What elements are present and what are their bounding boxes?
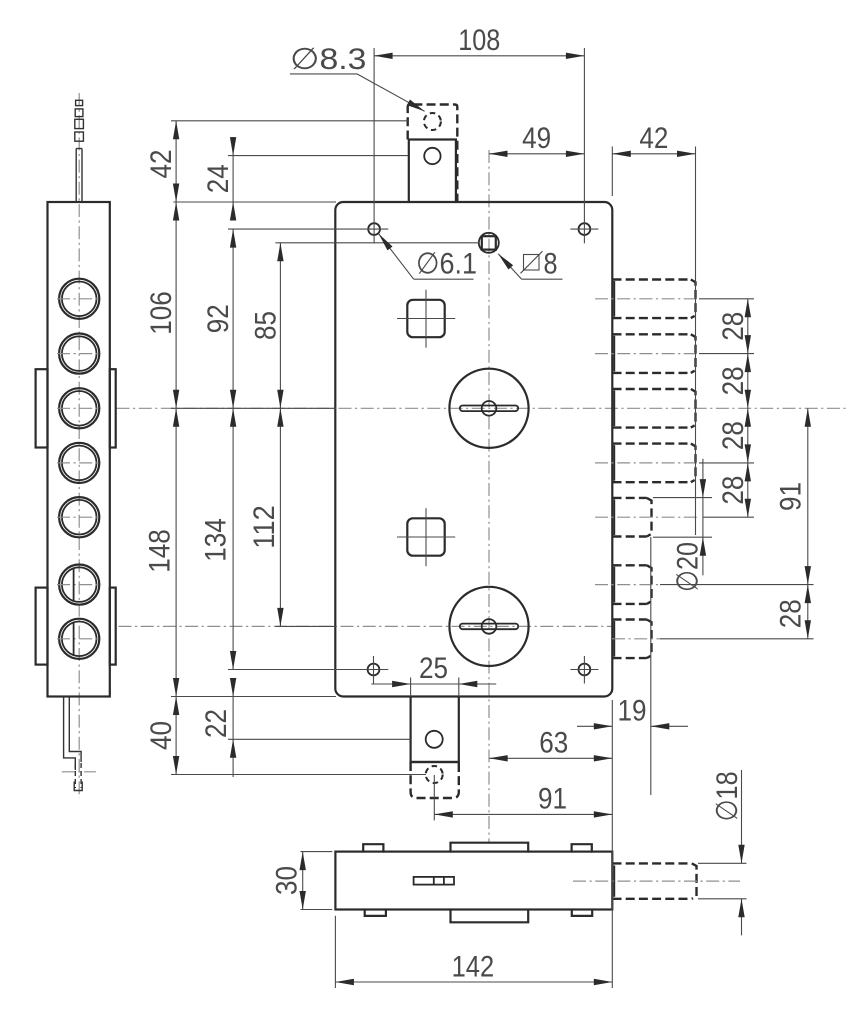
bottom view bottom right tab xyxy=(572,910,592,916)
side view bolt circle 3 xyxy=(57,388,102,428)
extension line bottom screw holes y=669.5 xyxy=(228,669,388,671)
extension line top screw holes y=229.1 xyxy=(228,228,388,230)
dimension 28 text 4 xyxy=(717,476,750,505)
extension line top left hole vertical xyxy=(373,48,375,243)
screw hole top left xyxy=(368,223,380,235)
side view cylinder circle 7 xyxy=(57,619,102,659)
bolt B5 (short, hidden) xyxy=(613,498,652,537)
leader diameter 8.3 top tab hole xyxy=(290,43,426,114)
bolt B7 (short, hidden) xyxy=(613,620,652,659)
extension line short bolt tips vertical xyxy=(650,537,652,795)
extension line bottom view left vertical xyxy=(334,916,336,988)
follower square hole upper xyxy=(397,290,455,348)
extension line body right edge vertical xyxy=(611,700,613,988)
extension line upper cylinder level xyxy=(171,407,336,409)
svg-text:134: 134 xyxy=(200,518,233,562)
dimension diameter 18 (bottom bolt) xyxy=(711,770,745,935)
dimension 28 right text xyxy=(774,599,807,628)
svg-text:∅8.3: ∅8.3 xyxy=(290,43,367,76)
extension line tab hole level y=155.6 xyxy=(228,155,408,157)
dimension 24 text xyxy=(202,164,235,193)
dimension 22 text xyxy=(200,709,233,738)
dimension 25 (bottom tab width) xyxy=(371,652,496,697)
leader square 8 spindle hole xyxy=(496,248,563,281)
svg-text:28: 28 xyxy=(717,312,750,341)
dimension 40 text xyxy=(145,721,178,750)
svg-text:108: 108 xyxy=(458,24,500,57)
extension line body bottom edge xyxy=(171,696,336,698)
square spindle hole 8mm xyxy=(479,233,499,253)
dimension chain 28 x4 (bolt spacing) xyxy=(745,299,751,517)
bottom view bottom center tab xyxy=(451,910,529,923)
bolt B5 centerline xyxy=(595,516,754,518)
svg-text:49: 49 xyxy=(522,122,551,155)
svg-text:28: 28 xyxy=(774,599,807,628)
bolt B1 centerline xyxy=(595,298,754,300)
extension line tab hidden hole level y=120.8 xyxy=(171,120,408,122)
dimension 108 (top screw hole spacing) xyxy=(374,24,584,59)
bolt B4 (extended, hidden) xyxy=(613,444,696,483)
dimension 28 text 2 xyxy=(717,366,750,395)
dimension 106 text xyxy=(145,291,178,335)
dimension column 85/112 line x=280.4 xyxy=(277,243,283,627)
dimension diameter 20 (bolt) xyxy=(672,459,706,592)
extension line lower cylinder level xyxy=(275,625,336,627)
svg-text:106: 106 xyxy=(145,291,178,335)
svg-text:112: 112 xyxy=(248,505,281,549)
extension line bottom tab hole y=739.3 xyxy=(228,738,411,740)
bolt B6 centerline xyxy=(595,584,814,586)
dimension 112 text xyxy=(248,505,281,549)
bottom view top left tab xyxy=(363,844,383,851)
bottom view latch detail xyxy=(414,877,454,885)
svg-text:91: 91 xyxy=(774,482,807,511)
dimension 91 bottom xyxy=(434,782,612,817)
bottom tab hidden extension xyxy=(411,762,459,798)
top tab hidden extension xyxy=(408,105,458,203)
dimension 92 text xyxy=(202,304,235,333)
dimension 148 text xyxy=(144,529,177,573)
side view top rod xyxy=(75,100,84,202)
follower square hole lower xyxy=(397,508,455,566)
svg-text:25: 25 xyxy=(419,652,448,685)
bolt B2 centerline xyxy=(595,353,754,355)
bolt B6 (short, hidden) xyxy=(613,565,652,604)
svg-text:24: 24 xyxy=(202,164,235,193)
side view upper right tab xyxy=(110,369,116,447)
svg-text:28: 28 xyxy=(717,476,750,505)
dimension 91/28 right line x=807.8 xyxy=(805,408,811,639)
screw hole bottom left xyxy=(368,656,380,684)
cylinder upper xyxy=(449,369,528,448)
side view bottom rod xyxy=(62,697,96,791)
side view lower right tab xyxy=(110,588,116,665)
cylinder lower xyxy=(449,587,528,666)
extension lines bottom bolt diameter xyxy=(698,863,747,899)
extension lines bottom view height xyxy=(301,852,333,910)
extension line bottom tab hole vertical xyxy=(433,775,435,820)
svg-text:∅20: ∅20 xyxy=(672,542,705,592)
svg-text:42: 42 xyxy=(639,122,668,155)
front view body outline xyxy=(335,202,612,697)
svg-text:91: 91 xyxy=(538,782,567,815)
extension line bolt B5 bottom edge xyxy=(653,536,712,538)
svg-text:22: 22 xyxy=(200,709,233,738)
centerline vertical front view xyxy=(488,150,490,842)
top tab hole xyxy=(424,148,440,164)
svg-text:∅6.1: ∅6.1 xyxy=(416,248,477,281)
bottom tab solid part xyxy=(411,697,459,763)
top tab solid part xyxy=(409,140,456,203)
bolt B3 (extended, hidden) xyxy=(613,389,696,428)
dimension 30 (case thickness) xyxy=(271,852,306,910)
top tab hidden hole xyxy=(424,113,441,130)
dimension 28 text 1 xyxy=(717,312,750,341)
svg-text:40: 40 xyxy=(145,721,178,750)
leader diameter 6.1 screw holes xyxy=(376,232,477,281)
centerline vertical side view xyxy=(78,93,80,798)
dimension column 24/92/134/22 line x=233.1 xyxy=(230,137,236,777)
dimension 19 xyxy=(577,694,688,729)
dimension column 42/106/148/40 line x=176.1 xyxy=(173,121,179,775)
svg-text:28: 28 xyxy=(717,421,750,450)
side view bolt circle 1 xyxy=(57,279,102,319)
svg-text:92: 92 xyxy=(202,304,235,333)
extension line body top edge xyxy=(173,201,336,203)
screw hole top right xyxy=(570,223,598,235)
bottom view body outline xyxy=(335,852,612,910)
side view faceplate outline xyxy=(48,202,110,697)
dimension 49 xyxy=(489,122,584,157)
bottom view bolt (hidden) xyxy=(613,863,697,898)
dimension 63 xyxy=(489,726,612,761)
side view cylinder circle 6 xyxy=(57,565,102,605)
svg-text:142: 142 xyxy=(452,951,495,984)
centerline horizontal lower (through lower cylinder) xyxy=(119,625,613,627)
bottom view top right tab xyxy=(572,844,592,851)
bottom view bottom left tab xyxy=(365,910,386,916)
svg-text:63: 63 xyxy=(539,726,568,759)
side view upper left tab xyxy=(36,369,48,447)
svg-text:85: 85 xyxy=(249,311,282,340)
dimension 42 left text xyxy=(145,150,178,179)
dimension 142 xyxy=(335,951,612,986)
svg-text:28: 28 xyxy=(717,366,750,395)
dimension 91 right text xyxy=(774,482,807,511)
bolt B7 centerline xyxy=(612,638,814,640)
dimension 28 text 3 xyxy=(717,421,750,450)
svg-text:30: 30 xyxy=(271,866,304,895)
svg-text:19: 19 xyxy=(618,694,647,727)
side view bolt circle 5 xyxy=(57,497,102,537)
extension line top right hole vertical xyxy=(583,48,585,243)
extension line square hole y=242.8 xyxy=(275,242,478,244)
svg-text:148: 148 xyxy=(144,529,177,573)
extension line long bolt tips vertical xyxy=(695,147,697,536)
bolt B1 (extended, hidden) xyxy=(613,280,696,319)
svg-text:8: 8 xyxy=(544,248,558,281)
bottom view top center tab xyxy=(451,843,529,852)
dimension 85 text xyxy=(249,311,282,340)
screw hole bottom right xyxy=(570,656,598,684)
extension line bottom tab hidden hole y=774.5 xyxy=(171,774,426,776)
centerline horizontal upper (through upper cylinder) xyxy=(117,407,849,409)
dimension 134 text xyxy=(200,518,233,562)
bottom tab hidden hole xyxy=(426,766,443,783)
svg-text:∅18: ∅18 xyxy=(711,771,744,821)
side view bolt circle 2 xyxy=(57,334,102,374)
bolt B4 centerline xyxy=(595,462,754,464)
bottom view bolt centerline xyxy=(573,880,740,882)
side view bolt circle 4 xyxy=(57,443,102,483)
dimension 42 (bolt length) xyxy=(612,122,695,196)
svg-text:42: 42 xyxy=(145,150,178,179)
side view lower left tab xyxy=(36,588,48,665)
bottom tab hole xyxy=(426,731,443,748)
bolt B2 (extended, hidden) xyxy=(613,334,696,373)
extension line bolt B5 top edge xyxy=(653,497,712,499)
